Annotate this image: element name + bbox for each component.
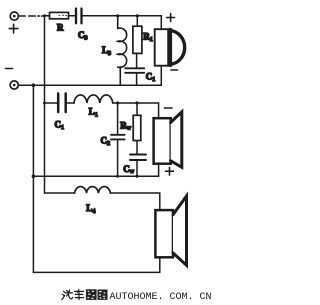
svg-text:AUTOHOME. COM. CN: AUTOHOME. COM. CN (110, 292, 212, 303)
node B (L3 tap on top rail) (116, 14, 119, 17)
wire negative rail (top section bottom return) (19, 84, 162, 86)
tweeter speaker (dome) (155, 16, 185, 85)
wire midrange row to speaker (113, 102, 159, 104)
node D (junction of − bus on negative rail) (32, 83, 36, 87)
capacitor C1 (tweeter zobel) (125, 53, 144, 85)
node E (midrange feed tap on + bus) (43, 102, 46, 105)
node I (C2 bottom junction) (116, 175, 119, 178)
resistor R1 (shunt zobel) (133, 16, 142, 54)
watermark 汽车之家 AUTOHOME.COM.CN (62, 289, 212, 303)
svg-text:C2: C2 (101, 135, 111, 147)
wire midrange bottom rail (33, 175, 158, 177)
wire dash-dot from + terminal to node A (19, 15, 45, 17)
svg-text:L4: L4 (86, 203, 95, 215)
capacitor C3 (76, 9, 86, 24)
capacitor C2 (shunt) (111, 103, 125, 176)
wire top rail to tweeter (85, 15, 162, 17)
terminal + (positive input binding post) (10, 12, 18, 20)
inductor L1 (midrange series) (74, 95, 113, 103)
capacitor C1 (midrange series) (45, 94, 75, 113)
node H (rail junction on − bus) (32, 174, 36, 178)
label − (midrange polarity) (164, 107, 172, 109)
svg-text:R: R (57, 22, 64, 32)
woofer speaker (cone) (155, 193, 186, 272)
label + (input polarity) (9, 24, 18, 33)
wire − bus (left vertical) (32, 85, 34, 272)
svg-text:L3: L3 (102, 45, 111, 57)
svg-text:Cw: Cw (123, 164, 135, 175)
wire woofer bottom return (33, 271, 159, 273)
svg-text:C1: C1 (146, 72, 156, 84)
svg-text:Rw: Rw (120, 120, 132, 131)
resistor R (45, 12, 75, 18)
midrange speaker (cone) (154, 103, 182, 176)
label + (midrange polarity) (166, 167, 174, 175)
svg-text:C3: C3 (78, 30, 88, 42)
terminal − (negative input binding post) (10, 81, 18, 89)
wire + bus (second vertical) (44, 16, 46, 193)
label + (tweeter polarity) (167, 14, 175, 22)
capacitor Cw (midrange zobel) (130, 141, 146, 177)
inductor L3 (shunt) (118, 16, 127, 85)
node C (R1 tap on top rail) (136, 14, 139, 17)
node J (Cw bottom junction) (136, 175, 139, 178)
label − (input polarity) (6, 68, 13, 70)
svg-text:R1: R1 (143, 31, 153, 43)
inductor L4 (woofer series) (45, 187, 160, 193)
svg-text:C1: C1 (55, 120, 65, 132)
svg-text:L1: L1 (89, 107, 98, 119)
resistor Rw (midrange zobel) (133, 103, 141, 141)
node A (junction of + feed and + bus) (43, 14, 46, 17)
label − (tweeter polarity) (171, 69, 178, 71)
node F (C2 tap) (116, 101, 119, 104)
node G (Rw tap) (135, 101, 138, 104)
